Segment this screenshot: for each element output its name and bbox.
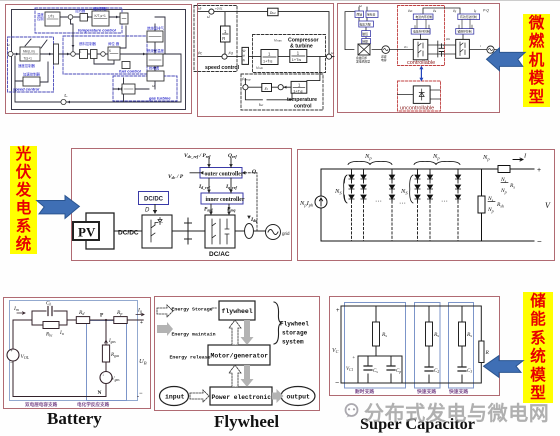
svg-text:−: − xyxy=(341,380,345,387)
svg-text:Idq: Idq xyxy=(250,217,257,223)
svg-text:Rp: Rp xyxy=(116,310,122,316)
svg-text:Cp: Cp xyxy=(396,369,401,374)
svg-text:v̄m: v̄m xyxy=(404,45,408,49)
svg-text:v̄dc: v̄dc xyxy=(408,9,413,13)
svg-text:Iw: Iw xyxy=(59,331,65,336)
svg-text:Rs: Rs xyxy=(433,332,439,338)
svg-text:···: ··· xyxy=(375,198,382,205)
svg-text:Rd: Rd xyxy=(78,310,85,316)
svg-text:电化学反应支路: 电化学反应支路 xyxy=(77,401,110,408)
svg-text:转矩: 转矩 xyxy=(362,40,368,44)
svg-text:system: system xyxy=(282,339,304,346)
svg-text:1+Tts: 1+Tts xyxy=(292,58,302,62)
svg-text:speed control: speed control xyxy=(205,65,240,71)
svg-text:+0.01: +0.01 xyxy=(215,7,223,11)
svg-text:Motor/generator: Motor/generator xyxy=(211,353,269,360)
svg-text:···: ··· xyxy=(399,200,406,207)
svg-text:Rs: Rs xyxy=(509,183,515,190)
svg-text:发电机模型: 发电机模型 xyxy=(356,59,370,63)
svg-text:Energy release: Energy release xyxy=(170,355,211,361)
svg-text:Et: Et xyxy=(265,87,268,91)
svg-text:DC/AC: DC/AC xyxy=(209,251,230,258)
svg-text:flywheel: flywheel xyxy=(222,308,253,315)
svg-text:Pmd: Pmd xyxy=(204,207,213,213)
svg-text:Igas: Igas xyxy=(108,339,116,344)
svg-text:−: − xyxy=(335,380,339,387)
svg-text:P-Q: P-Q xyxy=(483,9,489,13)
svg-text:DC/DC: DC/DC xyxy=(144,197,164,203)
svg-text:+: + xyxy=(10,348,13,353)
svg-text:Tcs+1: Tcs+1 xyxy=(24,57,33,61)
svg-text:1+T̄fs: 1+T̄fs xyxy=(263,59,273,64)
svg-text:grid: grid xyxy=(282,231,290,236)
svg-text:Rbc: Rbc xyxy=(45,333,53,338)
svg-text:uncontrollable: uncontrollable xyxy=(400,106,434,112)
svg-text:VOL: VOL xyxy=(21,354,30,360)
svg-text:Rsh: Rsh xyxy=(496,202,504,209)
svg-text:gas turbine: gas turbine xyxy=(148,96,171,101)
svg-text:input: input xyxy=(165,394,185,401)
svg-text:控制: 控制 xyxy=(37,16,44,21)
svg-text:Vdc_ref / Pref: Vdc_ref / Pref xyxy=(184,153,211,159)
svg-text:DC/DC: DC/DC xyxy=(118,230,139,237)
svg-text:−: − xyxy=(537,237,542,246)
svg-text:加速控制器: 加速控制器 xyxy=(23,72,41,77)
svg-text:P̄c: P̄c xyxy=(198,51,202,56)
svg-text:磁链: 磁链 xyxy=(362,32,368,36)
svg-text:Cs: Cs xyxy=(373,369,378,374)
svg-text:···: ··· xyxy=(441,198,448,205)
svg-text:燃烧室温度: 燃烧室温度 xyxy=(147,48,165,53)
svg-text:阀位 器: 阀位 器 xyxy=(108,41,120,46)
svg-text:temperature control: temperature control xyxy=(78,28,117,33)
svg-text:Ig: Ig xyxy=(137,308,142,314)
svg-text:F̄l: F̄l xyxy=(243,58,246,62)
svg-text:速度控制器: 速度控制器 xyxy=(18,63,36,68)
svg-text:Energy Storage: Energy Storage xyxy=(172,307,213,313)
svg-text:N: N xyxy=(98,390,102,396)
svg-text:inner controller: inner controller xyxy=(206,197,245,203)
svg-text:+: + xyxy=(537,167,541,174)
svg-text:辐射屏蔽: 辐射屏蔽 xyxy=(93,6,107,11)
svg-text:outer controller: outer controller xyxy=(205,172,244,178)
svg-text:Qref: Qref xyxy=(228,153,237,159)
svg-text:Energy maintain: Energy maintain xyxy=(172,332,216,338)
svg-text:Q: Q xyxy=(252,169,256,175)
svg-text:+: + xyxy=(140,320,143,326)
svg-text:ω: ω xyxy=(359,4,362,8)
svg-text:Cb: Cb xyxy=(46,302,51,307)
svg-text:坐标变: 坐标变 xyxy=(367,13,376,17)
svg-text:+: + xyxy=(352,356,355,361)
svg-text:Vdc / P: Vdc / P xyxy=(168,174,184,180)
svg-text:燃烧室排气: 燃烧室排气 xyxy=(147,26,165,31)
svg-text:di: di xyxy=(243,54,246,58)
svg-text:v̄a: v̄a xyxy=(433,9,437,13)
svg-text:speed control: speed control xyxy=(13,87,40,92)
svg-text:C3: C3 xyxy=(467,369,472,374)
svg-text:Vmax: Vmax xyxy=(274,39,282,43)
svg-text:Np: Np xyxy=(500,188,507,195)
svg-text:热电偶: 热电偶 xyxy=(149,66,160,71)
svg-text:有功无功控制: 有功无功控制 xyxy=(460,15,477,19)
svg-text:Rgas: Rgas xyxy=(110,353,120,358)
svg-text:电压方程: 电压方程 xyxy=(360,22,371,26)
svg-text:storage: storage xyxy=(282,330,308,337)
svg-text:双电层电容支路: 双电层电容支路 xyxy=(25,401,58,408)
svg-text:Vgas: Vgas xyxy=(112,377,121,382)
svg-text:Dtur: Dtur xyxy=(270,11,277,15)
svg-text:快速支路: 快速支路 xyxy=(449,388,468,395)
svg-text:1+Tts: 1+Tts xyxy=(293,90,303,94)
svg-text:Power electronic: Power electronic xyxy=(212,394,272,401)
svg-text:VC: VC xyxy=(332,348,339,354)
svg-text:−: − xyxy=(10,360,13,365)
svg-text:1/T̄s: 1/T̄s xyxy=(48,14,55,18)
svg-text:PV: PV xyxy=(78,225,96,240)
svg-text:C2: C2 xyxy=(434,369,439,374)
svg-text:+: + xyxy=(443,44,445,48)
svg-text:fuel control: fuel control xyxy=(119,69,142,74)
svg-text:+: + xyxy=(336,308,340,314)
svg-text:control: control xyxy=(294,104,312,110)
svg-text:燃料控制器: 燃料控制器 xyxy=(79,41,97,46)
svg-text:W̄: W̄ xyxy=(243,49,246,53)
svg-text:Id_ref: Id_ref xyxy=(198,184,210,190)
svg-text:Pmq: Pmq xyxy=(227,207,236,213)
svg-text:两轴: 两轴 xyxy=(357,13,363,17)
svg-text:ω̄ᵣ: ω̄ᵣ xyxy=(198,7,202,11)
svg-text:& turbine: & turbine xyxy=(290,44,313,50)
svg-text:Flywheel: Flywheel xyxy=(280,321,309,328)
svg-text:v̄g: v̄g xyxy=(453,9,457,13)
svg-text:Rs: Rs xyxy=(466,332,472,338)
svg-text:加热器: 加热器 xyxy=(75,8,86,13)
svg-text:耐时支路: 耐时支路 xyxy=(355,388,374,395)
svg-text:D: D xyxy=(145,208,150,214)
svg-text:↓: ↓ xyxy=(102,372,104,377)
svg-text:Min(Lm): Min(Lm) xyxy=(23,50,35,54)
svg-text:controllable: controllable xyxy=(407,60,435,66)
svg-text:K/T₁s+1: K/T₁s+1 xyxy=(95,14,106,18)
svg-text:−: − xyxy=(139,391,143,397)
svg-text:Im: Im xyxy=(13,306,19,312)
svg-text:output: output xyxy=(287,394,311,401)
svg-text:Vmin: Vmin xyxy=(256,66,263,70)
svg-text:快速支路: 快速支路 xyxy=(417,388,436,395)
svg-text:电压外环控制: 电压外环控制 xyxy=(413,30,430,34)
svg-text:锁相环控制: 锁相环控制 xyxy=(458,30,472,34)
svg-text:电容: 电容 xyxy=(381,58,387,62)
svg-text:VC1: VC1 xyxy=(346,367,353,372)
svg-text:Np: Np xyxy=(487,207,494,214)
svg-text:电流内环控制: 电流内环控制 xyxy=(416,15,433,19)
svg-text:Rs: Rs xyxy=(381,332,387,338)
svg-text:R: R xyxy=(222,36,225,41)
svg-text:F̄temp: F̄temp xyxy=(242,77,251,82)
svg-text:Iq_ref: Iq_ref xyxy=(225,184,237,190)
